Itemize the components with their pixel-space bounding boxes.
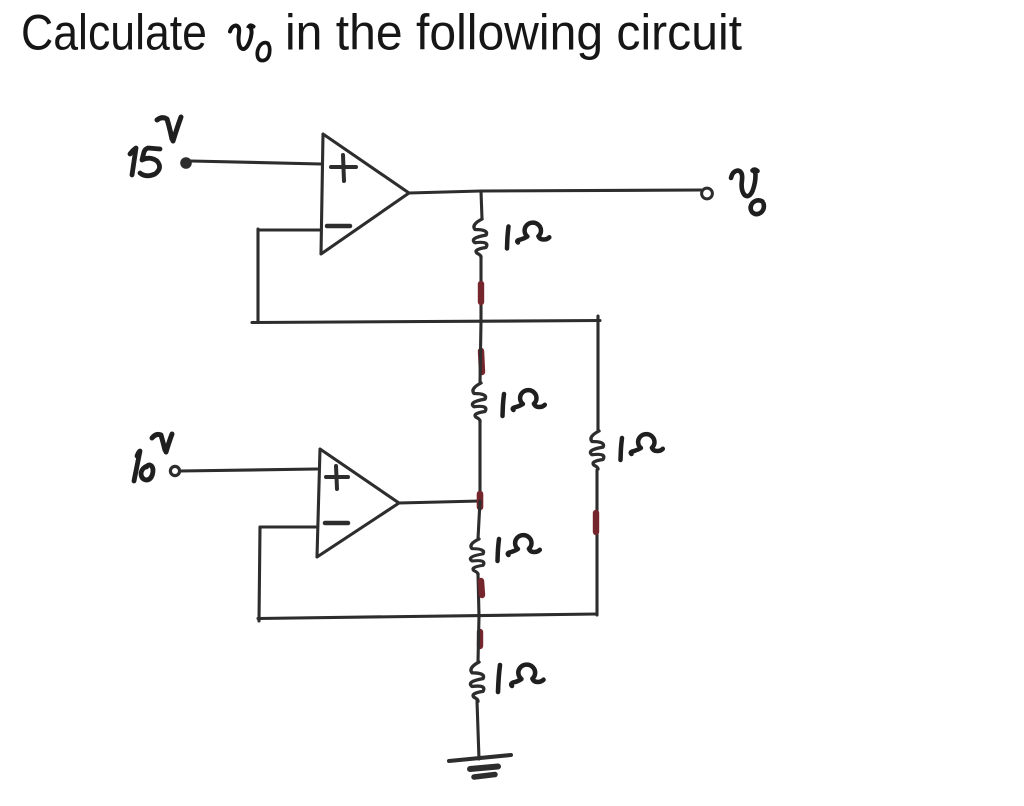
label V superscript bottom bbox=[152, 434, 172, 452]
red mark 1 bbox=[478, 284, 484, 302]
title math v bbox=[230, 26, 254, 50]
red mark 5 bbox=[477, 632, 483, 646]
wire feedback1 vertical bbox=[256, 229, 259, 322]
red mark 2 bbox=[481, 351, 482, 372]
wire opamp1 plus input bbox=[191, 161, 321, 164]
resistor R1 bbox=[473, 219, 486, 257]
source terminal 10V bbox=[170, 466, 179, 475]
wire opamp2 minus input bbox=[260, 525, 317, 528]
wire right branch bottom bbox=[595, 470, 598, 615]
label R5 1ohm bbox=[498, 665, 544, 692]
wire opamp1 output bbox=[409, 190, 701, 193]
label R2 1ohm bbox=[503, 390, 545, 416]
wire middle horizontal node B bbox=[252, 321, 600, 323]
wire opamp1 minus input bbox=[258, 228, 321, 231]
op-amp U2 bbox=[317, 449, 399, 557]
wire R4 to node D bbox=[478, 574, 479, 616]
red mark node C bbox=[477, 494, 484, 507]
label 10 bbox=[134, 451, 153, 481]
wire node D to R5 bbox=[478, 616, 479, 662]
resistor R5 bbox=[470, 662, 483, 701]
label R4 1ohm bbox=[498, 535, 540, 561]
label R3 1ohm bbox=[621, 434, 663, 460]
svg-text:in the following circuit: in the following circuit bbox=[285, 5, 742, 61]
label vo bbox=[731, 170, 764, 215]
resistor R4 bbox=[470, 539, 483, 574]
wire node B to R2 bbox=[480, 321, 481, 383]
title subscript o bbox=[257, 43, 269, 61]
resistor R3 bbox=[590, 431, 603, 469]
ground bbox=[449, 755, 511, 777]
red mark right branch bbox=[593, 513, 599, 532]
wire feedback2 vertical bbox=[259, 527, 260, 621]
op-amp U1 bbox=[321, 134, 409, 254]
label 15 bbox=[130, 148, 160, 176]
label V superscript top bbox=[157, 117, 181, 141]
output terminal circle bbox=[702, 188, 713, 199]
source terminal 15V bbox=[181, 158, 191, 168]
wire node C to R4 bbox=[478, 501, 480, 539]
resistor R2 bbox=[472, 383, 485, 421]
red mark 4 bbox=[481, 581, 482, 595]
wire right branch top bbox=[596, 316, 599, 431]
wire opamp2 plus input bbox=[180, 469, 317, 471]
label R1 1ohm bbox=[507, 223, 549, 249]
wire R2 to node C bbox=[478, 421, 481, 501]
wire node A to R1 bbox=[481, 191, 482, 219]
wire R1 to node B bbox=[479, 257, 482, 321]
wire opamp2 output bbox=[399, 501, 480, 503]
svg-text:Calculate: Calculate bbox=[21, 5, 207, 61]
wire bottom horizontal node D bbox=[258, 614, 597, 619]
title text bbox=[21, 5, 742, 61]
wire R5 to ground bbox=[477, 701, 479, 759]
